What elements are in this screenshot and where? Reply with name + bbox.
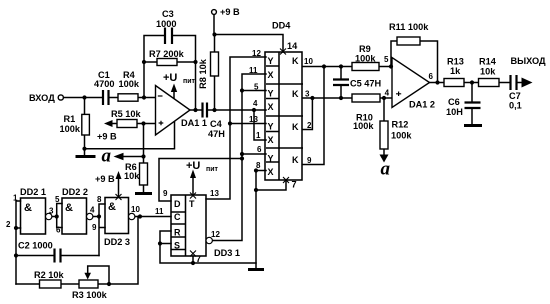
svg-text:R7 200k: R7 200k — [149, 49, 185, 59]
svg-text:5: 5 — [384, 55, 389, 64]
svg-text:пит: пит — [183, 78, 196, 85]
svg-text:13: 13 — [210, 189, 219, 198]
svg-text:X: X — [268, 135, 274, 145]
svg-text:R14: R14 — [479, 57, 497, 67]
svg-text:X: X — [268, 102, 274, 112]
svg-text:D: D — [174, 199, 181, 209]
svg-text:DD2 2: DD2 2 — [62, 187, 88, 197]
svg-text:T: T — [189, 199, 195, 209]
svg-text:R: R — [174, 228, 181, 238]
svg-text:R12: R12 — [392, 120, 409, 130]
svg-text:&: & — [108, 201, 116, 213]
svg-text:DA1 2: DA1 2 — [409, 100, 435, 110]
svg-text:2: 2 — [6, 220, 11, 229]
svg-text:R8 10k: R8 10k — [198, 58, 208, 89]
svg-text:C5 47Н: C5 47Н — [350, 79, 382, 89]
svg-text:9: 9 — [163, 189, 168, 198]
svg-text:a: a — [102, 146, 112, 167]
svg-text:+9 В: +9 В — [97, 132, 117, 142]
svg-text:C4: C4 — [210, 119, 223, 129]
svg-text:K: K — [292, 89, 299, 99]
svg-text:DD4: DD4 — [272, 21, 291, 31]
svg-text:C7: C7 — [509, 91, 521, 101]
svg-text:Y: Y — [268, 154, 274, 164]
svg-text:47Н: 47Н — [208, 129, 225, 139]
svg-text:K: K — [292, 56, 299, 66]
svg-text:ВХОД: ВХОД — [29, 93, 55, 103]
svg-text:14: 14 — [287, 41, 298, 51]
svg-text:100k: 100k — [60, 124, 81, 134]
svg-text:5: 5 — [254, 83, 259, 92]
svg-text:DD3 1: DD3 1 — [214, 248, 240, 258]
svg-text:C2 1000: C2 1000 — [18, 241, 53, 251]
svg-text:2: 2 — [307, 121, 312, 130]
svg-text:R9: R9 — [359, 44, 371, 54]
svg-text:10: 10 — [304, 57, 313, 66]
svg-text:13: 13 — [249, 115, 258, 124]
svg-text:DD2 1: DD2 1 — [20, 187, 46, 197]
svg-text:12: 12 — [252, 49, 261, 58]
svg-text:+U: +U — [163, 72, 177, 84]
svg-text:X: X — [268, 167, 274, 177]
svg-text:Y: Y — [268, 122, 274, 132]
svg-text:100k: 100k — [119, 79, 140, 89]
svg-text:6: 6 — [429, 72, 434, 81]
svg-text:6: 6 — [56, 226, 61, 235]
svg-text:пит: пит — [206, 166, 219, 173]
svg-text:K: K — [292, 122, 299, 132]
svg-text:R5 10k: R5 10k — [111, 109, 142, 119]
svg-text:0,1: 0,1 — [509, 101, 522, 111]
svg-text:+U: +U — [186, 160, 200, 172]
svg-text:ВЫХОД: ВЫХОД — [511, 56, 547, 66]
svg-text:4: 4 — [90, 206, 95, 215]
svg-text:1k: 1k — [450, 66, 461, 76]
svg-text:+9 В: +9 В — [95, 174, 115, 184]
svg-text:100k: 100k — [353, 121, 374, 131]
svg-text:1: 1 — [256, 131, 261, 140]
svg-text:10k: 10k — [480, 67, 496, 77]
svg-text:10k: 10k — [124, 171, 140, 181]
svg-text:5: 5 — [55, 195, 60, 204]
svg-text:C: C — [174, 212, 181, 222]
svg-text:C6: C6 — [448, 97, 460, 107]
svg-text:6: 6 — [257, 145, 262, 154]
svg-text:+9 В: +9 В — [220, 7, 240, 17]
svg-text:8: 8 — [256, 161, 261, 170]
svg-text:R1: R1 — [64, 114, 76, 124]
svg-text:R11 100k: R11 100k — [389, 22, 429, 32]
svg-text:9: 9 — [92, 223, 97, 232]
svg-text:3: 3 — [305, 90, 310, 99]
svg-text:11: 11 — [155, 207, 164, 216]
svg-text:a: a — [381, 159, 391, 180]
svg-text:K: K — [292, 155, 299, 165]
svg-text:X: X — [268, 70, 274, 80]
svg-text:1: 1 — [13, 194, 18, 203]
svg-text:DA1 1: DA1 1 — [181, 118, 207, 128]
svg-text:DD2 3: DD2 3 — [104, 237, 130, 247]
svg-text:100k: 100k — [391, 131, 412, 141]
svg-text:4: 4 — [385, 89, 390, 98]
svg-text:&: & — [65, 202, 73, 214]
svg-text:1000: 1000 — [156, 19, 176, 29]
svg-text:R3 100k: R3 100k — [72, 290, 108, 300]
svg-text:S: S — [174, 241, 180, 251]
svg-text:&: & — [24, 202, 32, 214]
svg-text:100k: 100k — [355, 54, 376, 64]
svg-text:Y: Y — [268, 56, 274, 66]
svg-text:11: 11 — [249, 66, 258, 75]
svg-text:12: 12 — [211, 230, 220, 239]
svg-text:9: 9 — [307, 156, 312, 165]
svg-text:10: 10 — [131, 205, 140, 214]
svg-text:Y: Y — [268, 89, 274, 99]
svg-text:C3: C3 — [162, 9, 174, 19]
svg-text:R13: R13 — [447, 57, 464, 67]
svg-text:4700: 4700 — [94, 79, 114, 89]
svg-text:7: 7 — [196, 254, 201, 264]
svg-text:R2 10k: R2 10k — [34, 270, 65, 280]
svg-text:3: 3 — [49, 207, 54, 216]
svg-text:10Н: 10Н — [446, 107, 463, 117]
svg-text:4: 4 — [253, 99, 258, 108]
svg-text:7: 7 — [292, 180, 297, 190]
svg-text:8: 8 — [97, 195, 102, 204]
